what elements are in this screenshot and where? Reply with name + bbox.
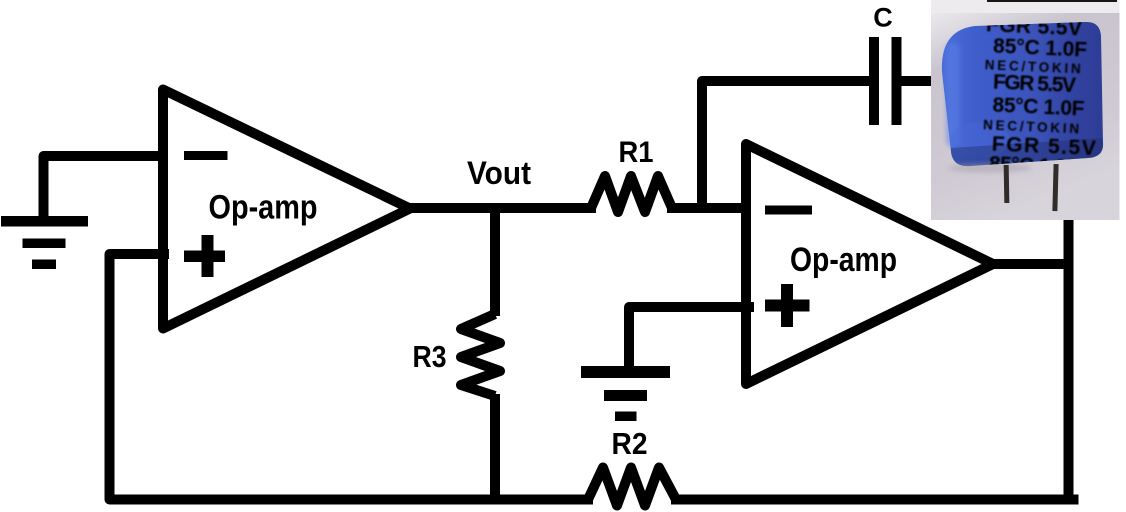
svg-text:Op-amp: Op-amp (209, 189, 318, 227)
photo: dark table edge at top (987, 0, 1117, 2)
svg-text:85°C 1.0F: 85°C 1.0F (992, 94, 1085, 121)
ground GND1 (1, 216, 88, 269)
wire: bottom rail from R2 to right rail (676, 495, 1074, 505)
svg-text:Op-amp: Op-amp (790, 241, 897, 279)
wire: ground1 to U1 inverting input (44, 156, 165, 218)
svg-text:R3: R3 (413, 340, 447, 374)
ground GND2 (581, 366, 670, 421)
photo: capacitor body (942, 22, 1103, 166)
wire: R3 bottom to bottom rail (490, 394, 500, 505)
wire: U1 output to R1 (Vout net) (408, 203, 591, 213)
node Vout junction: wire down to R3 (490, 208, 500, 316)
U1 minus symbol (184, 151, 228, 160)
node: feedback junction, wire up to capacitor C (702, 81, 869, 208)
svg-text:R1: R1 (619, 136, 654, 169)
U1 plus symbol (184, 235, 225, 277)
wire: R1 to U2 inverting input (672, 203, 749, 213)
wire: U2 non-inverting input to ground GND2 (629, 307, 749, 372)
resistor R2 (588, 468, 676, 506)
svg-text:Vout: Vout (467, 155, 531, 191)
capacitor C plates (869, 37, 902, 125)
svg-text:R2: R2 (612, 427, 648, 461)
photo: printed text on capacitor (979, 13, 1101, 180)
resistor R1 (591, 176, 672, 212)
op-amp U2 (746, 144, 993, 384)
photo: capacitor legs (1004, 165, 1010, 203)
svg-text:C: C (873, 3, 893, 33)
op-amp U1 (163, 90, 410, 329)
wire: U2 output to right rail (991, 259, 1069, 269)
photo: blue NEC/TOKIN supercapacitor (931, 0, 1120, 220)
resistor R3 (461, 314, 500, 396)
wire: capacitor C right plate to right rail, down to bottom rail (901, 81, 1069, 504)
wire: U1 non-inverting input, left rail down to bottom rail (110, 254, 589, 500)
U2 plus symbol (765, 284, 810, 327)
U2 minus symbol (765, 206, 812, 215)
